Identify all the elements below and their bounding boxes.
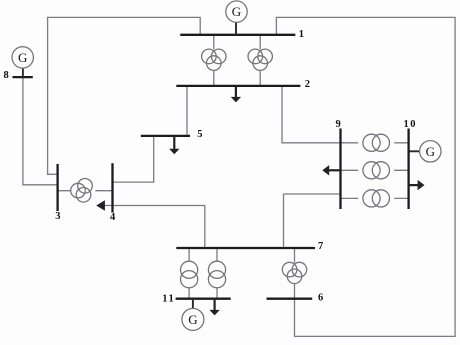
load arrow bus5 bbox=[169, 136, 179, 154]
transformer T7-11a leads bbox=[188, 248, 190, 299]
svg-text:7: 7 bbox=[318, 241, 323, 252]
transformer T7-11b leads bbox=[216, 248, 218, 299]
transformer T3-4 bbox=[71, 179, 93, 203]
svg-text:1: 1 bbox=[299, 29, 304, 40]
generator G11 bbox=[182, 308, 204, 330]
bus 1 bbox=[180, 34, 295, 36]
generator G8 bbox=[12, 47, 33, 68]
wire bus8 down then right to bus 3 bbox=[23, 77, 58, 185]
transformer T1-2b bbox=[248, 49, 272, 70]
wire bus7 up then left toward bus4 arrow bbox=[105, 206, 205, 249]
svg-text:6: 6 bbox=[318, 292, 323, 303]
bus 10 bbox=[407, 129, 409, 210]
bus 2 bbox=[176, 85, 300, 87]
generator G1 bbox=[226, 1, 247, 22]
transformer T1-2a leads bbox=[213, 35, 215, 86]
svg-text:2: 2 bbox=[305, 79, 310, 90]
wire bus5 down then left to bus4 bbox=[113, 136, 154, 182]
bus 5 bbox=[141, 135, 190, 137]
bus 7 bbox=[176, 247, 315, 249]
transformer T6-7 bbox=[282, 262, 306, 283]
wire bus2 down to bus5 bbox=[186, 86, 188, 136]
bus 6 bbox=[267, 298, 313, 300]
load arrow bus11 bbox=[209, 299, 219, 316]
svg-text:11: 11 bbox=[162, 293, 175, 304]
wire bus1 right riser, right edge loop down to bus 6 bbox=[276, 17, 455, 336]
svg-text:3: 3 bbox=[55, 211, 60, 222]
transformer T9-10a bbox=[363, 134, 390, 151]
wire bus7 up then right to bus9 bbox=[284, 194, 341, 248]
transformer T9-10b leads bbox=[341, 169, 409, 171]
bus 4 bbox=[111, 163, 113, 212]
svg-text:G: G bbox=[188, 312, 197, 327]
svg-text:5: 5 bbox=[197, 129, 202, 140]
svg-text:10: 10 bbox=[404, 119, 418, 130]
load arrow bus10 (right) bbox=[409, 180, 425, 190]
transformer T9-10c bbox=[363, 190, 390, 207]
load arrow bus9 (left) bbox=[322, 165, 340, 175]
svg-text:8: 8 bbox=[4, 70, 9, 81]
transformer T1-2a bbox=[202, 49, 226, 70]
generator G10 lead bbox=[409, 150, 420, 152]
transformer T9-10a leads bbox=[341, 142, 409, 144]
load arrow bus2 bbox=[231, 86, 241, 103]
svg-text:G: G bbox=[426, 144, 435, 159]
transformer T7-11b bbox=[208, 261, 225, 288]
transformer T9-10c leads bbox=[341, 197, 409, 199]
svg-text:9: 9 bbox=[336, 119, 341, 130]
wire bus1 left riser to top-left corner down to bus 3 bbox=[48, 17, 201, 174]
bus 9 bbox=[339, 129, 341, 210]
transformer T6-7 leads bbox=[294, 248, 296, 299]
generator G10 bbox=[420, 141, 441, 162]
transformer T7-11a bbox=[181, 261, 198, 288]
svg-text:4: 4 bbox=[110, 212, 116, 223]
transformer T1-2b leads bbox=[259, 35, 261, 86]
transformer T9-10b bbox=[363, 162, 390, 179]
generator G8 lead bbox=[22, 68, 24, 77]
generator G1 lead bbox=[235, 22, 237, 35]
transformer T3-4 leads bbox=[58, 190, 113, 192]
bus 3 bbox=[56, 164, 58, 211]
bus 8 bbox=[13, 76, 33, 78]
generator G11 lead bbox=[192, 299, 194, 309]
svg-text:G: G bbox=[18, 50, 27, 65]
bus 11 bbox=[176, 298, 231, 300]
load arrow bus4 (left) bbox=[96, 200, 105, 210]
svg-text:G: G bbox=[232, 4, 241, 19]
wire bus2 down then right to bus9 bbox=[282, 86, 341, 143]
